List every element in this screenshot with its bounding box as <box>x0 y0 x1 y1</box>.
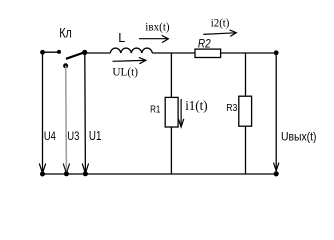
node D5 top right <box>274 50 279 55</box>
node D8 bottom U1 <box>83 171 88 176</box>
svg-text:R2: R2 <box>198 36 211 50</box>
inductor L <box>110 48 152 53</box>
wire top-left D1 to D2 <box>43 51 60 53</box>
wire R2 to D5 <box>221 52 277 54</box>
current arrow i2 head <box>230 30 237 37</box>
wire top to R1 <box>170 53 172 97</box>
switch Кл blade <box>66 52 85 59</box>
svg-text:U4: U4 <box>44 129 56 143</box>
svg-text:Uвых(t): Uвых(t) <box>281 130 317 144</box>
node D9 bottom right <box>274 171 279 176</box>
wire top to R3 <box>245 53 247 96</box>
svg-text:UL(t): UL(t) <box>112 67 138 79</box>
resistor R2 <box>195 49 221 57</box>
resistor R3 <box>239 96 252 126</box>
voltage arrow U3 wire (gray) <box>65 66 68 174</box>
wire D4 to inductor <box>85 52 111 54</box>
node D6 bottom left <box>40 172 45 177</box>
svg-text:i2(t): i2(t) <box>211 18 230 30</box>
wire R3 to bottom rail <box>245 126 247 174</box>
node D4 switch pivot <box>82 50 87 55</box>
svg-text:iвх(t): iвх(t) <box>145 21 169 33</box>
voltage arrow U1 rail <box>84 52 87 173</box>
svg-text:Кл: Кл <box>59 24 72 40</box>
svg-text:U3: U3 <box>67 129 79 143</box>
svg-text:i1(t): i1(t) <box>185 98 207 113</box>
voltage arrow U1 head <box>82 163 88 173</box>
node D1 top of U4 rail <box>40 50 45 55</box>
current arrow iвх line <box>139 38 167 40</box>
svg-text:R3: R3 <box>226 103 237 114</box>
svg-text:U1: U1 <box>89 128 102 143</box>
node D3 switch lower contact <box>63 63 68 68</box>
voltage arrow U4 head <box>39 163 45 173</box>
bottom rail wire <box>43 173 277 175</box>
current arrow i1 line <box>180 99 182 127</box>
resistor R1 <box>165 97 178 127</box>
current arrow i1 head <box>178 119 183 127</box>
wire R1 to bottom rail <box>170 127 172 174</box>
voltage arrow U4 rail <box>42 52 44 173</box>
voltage arrow Uвых rail <box>275 53 277 174</box>
voltage arrow UL head <box>139 57 146 63</box>
voltage arrow Uвых head <box>274 163 279 171</box>
current arrow iвх head <box>162 35 169 42</box>
node D2 switch left contact <box>57 50 61 54</box>
current arrow i2 line <box>203 33 235 35</box>
svg-text:R1: R1 <box>150 104 161 115</box>
wire inductor to R2 <box>152 52 195 54</box>
node D7 bottom U3 <box>64 171 69 176</box>
voltage arrow U3 head <box>63 163 69 173</box>
svg-text:L: L <box>118 30 125 45</box>
voltage arrow UL line <box>113 59 145 62</box>
